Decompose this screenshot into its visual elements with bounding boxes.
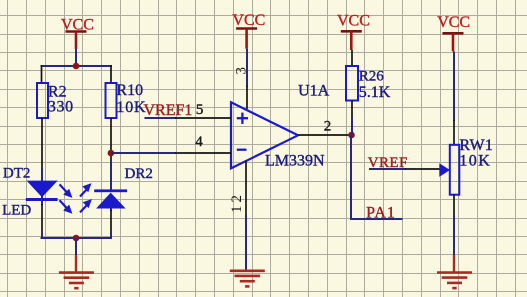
svg-text:R10: R10 xyxy=(116,82,143,99)
svg-text:LM339N: LM339N xyxy=(265,152,325,169)
svg-text:2: 2 xyxy=(324,119,332,135)
svg-text:VREF1: VREF1 xyxy=(144,102,193,119)
svg-text:3: 3 xyxy=(233,67,249,75)
svg-text:VCC: VCC xyxy=(437,14,470,31)
svg-text:330: 330 xyxy=(48,99,74,116)
svg-text:VCC: VCC xyxy=(337,13,370,30)
svg-text:VCC: VCC xyxy=(232,12,265,29)
svg-text:4: 4 xyxy=(195,134,203,150)
svg-text:LED: LED xyxy=(2,202,31,218)
svg-text:5: 5 xyxy=(196,102,204,118)
svg-text:10K: 10K xyxy=(459,153,491,170)
svg-text:1: 1 xyxy=(229,206,245,214)
svg-text:U1A: U1A xyxy=(298,83,330,100)
svg-text:VCC: VCC xyxy=(61,16,94,33)
svg-text:VREF: VREF xyxy=(368,155,408,171)
svg-text:10K: 10K xyxy=(116,99,146,116)
svg-text:5.1K: 5.1K xyxy=(359,84,391,101)
svg-text:DT2: DT2 xyxy=(3,166,31,182)
svg-text:PA1: PA1 xyxy=(366,204,396,221)
svg-text:DR2: DR2 xyxy=(125,166,153,182)
svg-text:R26: R26 xyxy=(359,69,385,85)
svg-text:2: 2 xyxy=(229,195,245,203)
